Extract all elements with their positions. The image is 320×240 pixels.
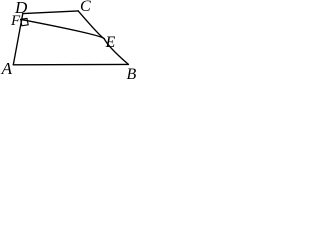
label C bbox=[80, 0, 91, 15]
wire diagonal FE bbox=[21, 19, 104, 38]
wire side EB bbox=[104, 39, 128, 65]
label F bbox=[11, 14, 20, 29]
wire side CE bbox=[78, 11, 104, 39]
label A bbox=[2, 60, 12, 77]
label D bbox=[15, 0, 27, 16]
right-angle mark at F bbox=[21, 18, 29, 25]
label B bbox=[127, 67, 137, 83]
label E bbox=[106, 35, 116, 51]
wire side DC (top edge) bbox=[23, 11, 78, 14]
wire side AB (bottom edge) bbox=[13, 63, 128, 65]
wire side DA (left edge) bbox=[13, 14, 22, 65]
